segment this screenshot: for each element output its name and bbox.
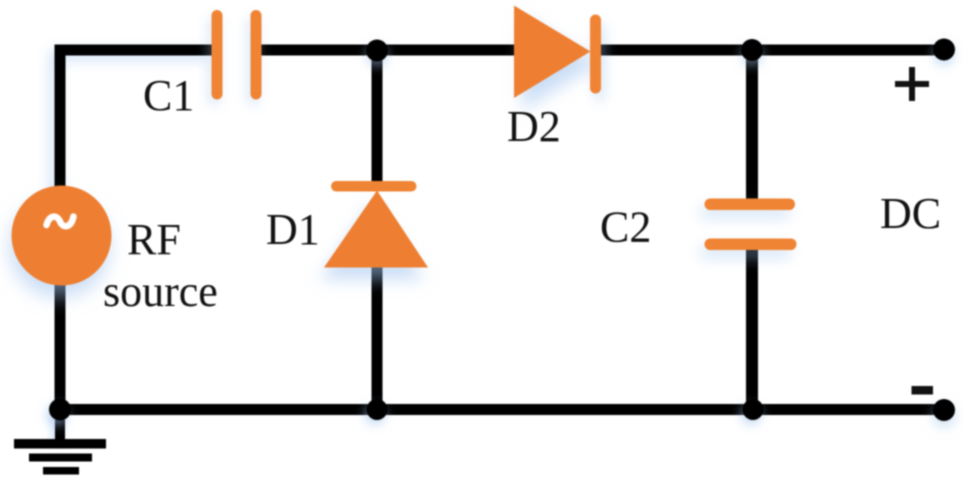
- svg-text:C1: C1: [143, 71, 194, 120]
- node: - output terminal dot: [933, 399, 955, 421]
- wire: top-left corner from RF source up and right to C1: [60, 50, 213, 190]
- svg-text:D1: D1: [266, 205, 320, 254]
- svg-text:source: source: [103, 267, 218, 316]
- wire: D1 branch lower segment: [372, 264, 383, 410]
- wire: C2 branch upper segment: [746, 50, 758, 202]
- capacitor C2 plate bottom: [705, 239, 797, 251]
- wire: ground stem: [55, 409, 65, 441]
- capacitor C1 plate left: [212, 10, 223, 100]
- node: junction D2/C2 top: [741, 39, 763, 61]
- wire: top rail D2 to + terminal: [599, 45, 944, 56]
- ground: [14, 439, 106, 475]
- node: + output terminal dot: [933, 39, 955, 61]
- node: junction C1/D1 top: [366, 40, 388, 62]
- diode D1 triangle (anode, pointing up): [324, 191, 428, 268]
- capacitor C2 plate top: [705, 199, 796, 211]
- wire: RF source to bottom rail: [55, 282, 66, 410]
- wire: D1 branch upper segment: [372, 50, 383, 186]
- svg-text:C2: C2: [600, 203, 651, 252]
- node: junction C2 bottom: [743, 399, 764, 420]
- svg-text:RF: RF: [127, 215, 181, 264]
- + terminal symbol: [895, 67, 929, 101]
- node: bottom-left junction at ground: [49, 399, 71, 421]
- wire: C2 branch lower segment: [746, 247, 758, 410]
- capacitor C1 plate right: [251, 10, 262, 100]
- diode D1 cathode bar: [331, 181, 417, 192]
- wire: bottom rail: [60, 404, 944, 415]
- diode D2 triangle (pointing right): [514, 6, 591, 99]
- diode D2 cathode bar: [590, 15, 601, 94]
- svg-text:D2: D2: [507, 102, 561, 151]
- wire: top rail C1 to D2: [260, 45, 516, 56]
- RF source circle: [12, 186, 112, 286]
- - terminal symbol: [912, 386, 934, 395]
- node: junction D1 bottom: [367, 399, 388, 420]
- svg-text:DC: DC: [880, 189, 941, 238]
- RF source sine symbol: [47, 217, 74, 227]
